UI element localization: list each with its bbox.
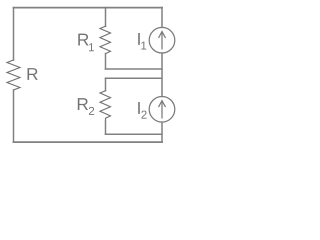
wire R1 bottom lead [105, 54, 107, 69]
wire mid node B [106, 77, 163, 79]
wire R1 top lead [105, 8, 107, 27]
wire R2 bottom lead [105, 121, 107, 135]
wire top [14, 7, 163, 9]
wire inner bottom [106, 133, 163, 135]
wire right upper [161, 8, 163, 28]
wire left upper [13, 8, 15, 60]
label I2 letter I [138, 102, 140, 114]
wire right middle [161, 53, 163, 96]
current source I1 [149, 27, 175, 53]
resistor R1 [100, 26, 111, 53]
wire left lower [13, 90, 15, 142]
resistor R2 [100, 91, 111, 121]
wire mid node A [106, 68, 163, 70]
wire bottom [14, 141, 163, 143]
resistor R [7, 60, 20, 90]
label I2 subscript 2 [141, 111, 146, 119]
label R1 letter R [78, 34, 88, 46]
label R2 letter R [78, 98, 88, 110]
wire R2 top lead [105, 78, 107, 91]
label I1 subscript 1 [141, 42, 146, 50]
wire right lower [161, 122, 163, 142]
label R [28, 68, 38, 80]
current source I2 [149, 97, 175, 123]
label R1 subscript 1 [89, 43, 94, 51]
label I1 letter I [138, 33, 140, 45]
label R2 subscript 2 [89, 107, 94, 115]
